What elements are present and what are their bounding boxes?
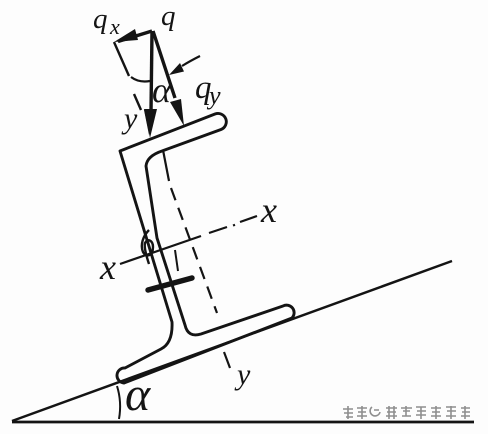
extra overdrawn stroke on web (hand-drawn artifact) xyxy=(175,250,178,271)
angle arc segment with arrow right of q xyxy=(182,56,200,66)
svg-text:α: α xyxy=(125,368,151,421)
svg-text:y: y xyxy=(121,102,138,135)
svg-text:y: y xyxy=(234,358,251,391)
component vector q_y xyxy=(153,31,175,98)
parallelogram side / y direction line xyxy=(114,42,141,110)
channel section outline xyxy=(117,113,294,383)
svg-text:q: q xyxy=(161,0,176,32)
loop squiggle on web left edge xyxy=(142,230,153,264)
x axis line (solid part) xyxy=(120,236,201,264)
component vector q_x xyxy=(118,31,152,42)
y axis last dash below flange xyxy=(224,352,230,368)
incline line xyxy=(12,261,452,421)
x axis dash-dot part xyxy=(209,216,257,233)
angle arc segment left of q xyxy=(131,77,150,82)
alpha angle arc at incline base xyxy=(117,386,120,419)
svg-text:q: q xyxy=(93,3,108,35)
watermark pseudo-text xyxy=(343,406,470,419)
svg-text:α: α xyxy=(152,70,172,110)
svg-text:x: x xyxy=(99,247,116,287)
svg-text:y: y xyxy=(206,81,221,110)
y axis first solid dash xyxy=(163,150,169,181)
y axis dashed line through section xyxy=(171,188,217,313)
svg-text:x: x xyxy=(260,190,277,230)
ground horizontal line xyxy=(12,421,474,424)
svg-text:x: x xyxy=(109,14,120,39)
load vector q (vertical) xyxy=(151,31,152,112)
thick section mark across web xyxy=(148,278,192,290)
